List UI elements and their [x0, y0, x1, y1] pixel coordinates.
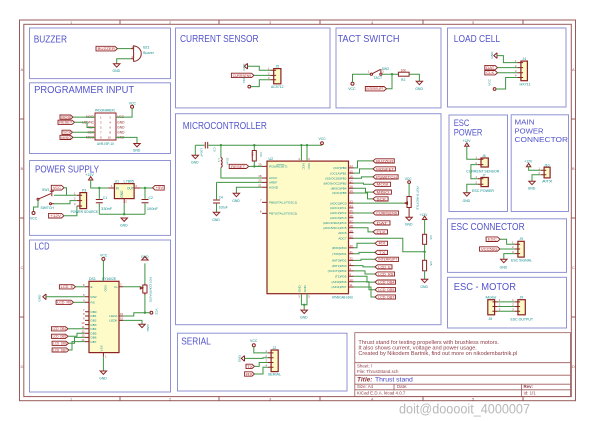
svg-text:MAIN: MAIN — [515, 118, 535, 127]
wire PC2 — [354, 212, 374, 214]
wire — [102, 261, 104, 282]
wire — [500, 248, 515, 250]
top VCC pins — [301, 145, 307, 161]
power VCC — [321, 142, 324, 145]
svg-text:U2: U2 — [269, 157, 274, 161]
wire — [529, 167, 541, 171]
inductor L1 — [220, 145, 222, 157]
svg-text:POT CONTRASTE: POT CONTRASTE — [149, 277, 153, 302]
svg-text:+12V: +12V — [85, 173, 94, 177]
svg-text:LCD_DB7: LCD_DB7 — [53, 348, 67, 352]
wire — [498, 72, 518, 74]
label RX — [375, 241, 388, 245]
label MISO — [60, 135, 73, 139]
svg-text:20: 20 — [258, 179, 262, 183]
svg-text:GND: GND — [120, 190, 124, 198]
svg-text:doit@dooooit_4000007: doit@dooooit_4000007 — [399, 402, 530, 417]
junction — [220, 144, 222, 146]
svg-text:(ICP)PB0: (ICP)PB0 — [333, 166, 346, 170]
connector J7 — [481, 178, 488, 187]
wire — [387, 74, 393, 89]
junction — [423, 251, 425, 253]
svg-text:MISO: MISO — [61, 136, 71, 140]
svg-text:32: 32 — [350, 257, 354, 261]
potentiometer CONTRASTE — [143, 285, 147, 293]
svg-text:J9: J9 — [520, 295, 524, 299]
svg-text:29: 29 — [258, 163, 262, 167]
label LCD_RS — [375, 272, 395, 276]
ESC POWER section — [463, 139, 500, 203]
svg-text:SW1: SW1 — [42, 188, 49, 192]
wire — [73, 131, 96, 133]
SERIAL section — [238, 339, 281, 376]
svg-text:RS: RS — [91, 301, 95, 305]
svg-text:CLK: CLK — [377, 230, 387, 234]
wire bottom rail — [99, 203, 145, 214]
svg-text:LCD_DB5: LCD_DB5 — [378, 288, 394, 292]
label BUZZER — [373, 159, 394, 163]
svg-text:GND: GND — [300, 316, 308, 320]
label LCD_DB4 — [52, 327, 69, 331]
right pin names — [323, 166, 347, 289]
wire PD7 — [354, 287, 376, 297]
svg-text:PROGRAMMER1: PROGRAMMER1 — [95, 109, 115, 113]
label +12V — [49, 213, 64, 218]
svg-text:ESC: ESC — [488, 238, 498, 242]
svg-text:LCD_DB4: LCD_DB4 — [53, 327, 67, 331]
ground left — [241, 356, 244, 362]
svg-text:E: E — [91, 285, 93, 289]
wires — [498, 302, 515, 311]
label RX — [245, 372, 255, 376]
svg-text:GND: GND — [191, 161, 199, 165]
svg-text:(OC1A)PB1: (OC1A)PB1 — [330, 171, 347, 175]
ground — [421, 279, 427, 282]
wire PD6 — [354, 282, 376, 290]
IC U2 ATMEGA8-16AU — [267, 161, 349, 294]
svg-text:HY1602E: HY1602E — [102, 277, 117, 281]
svg-text:LCD_E: LCD_E — [378, 265, 391, 269]
wire — [409, 74, 419, 81]
wire — [123, 286, 140, 288]
svg-text:R5: R5 — [429, 262, 433, 266]
label LCD_E — [375, 265, 392, 269]
label TX — [246, 364, 255, 368]
svg-text:R3: R3 — [259, 153, 263, 157]
ground — [121, 218, 127, 221]
svg-text:(RXD)PD0: (RXD)PD0 — [332, 246, 347, 250]
label LCD_RS — [56, 300, 73, 304]
svg-text:C2: C2 — [149, 196, 153, 200]
svg-text:LOAD CELL: LOAD CELL — [454, 34, 501, 45]
svg-text:J9: J9 — [519, 237, 523, 241]
svg-text:BUZZER: BUZZER — [34, 35, 67, 46]
svg-text:VCC: VCC — [53, 186, 62, 190]
svg-text:A: A — [21, 67, 24, 72]
label PSWITCH — [373, 175, 398, 179]
svg-text:10uH: 10uH — [226, 158, 230, 165]
svg-text:TX: TX — [247, 365, 253, 369]
junction — [253, 165, 255, 167]
power VCC right — [145, 312, 150, 314]
capacitor C2 — [144, 188, 146, 199]
svg-text:SERIAL: SERIAL — [268, 372, 281, 376]
svg-text:BZ1: BZ1 — [143, 45, 149, 49]
wire — [64, 188, 67, 196]
svg-text:GND: GND — [242, 63, 246, 71]
svg-text:VCC: VCC — [405, 177, 413, 181]
connector J4 HX711 — [521, 61, 528, 81]
wire — [68, 333, 85, 336]
power VCC — [248, 85, 251, 88]
svg-text:VCC: VCC — [307, 163, 311, 170]
ground — [501, 259, 507, 262]
svg-text:GND: GND — [146, 325, 150, 333]
svg-text:PSWITCH: PSWITCH — [376, 175, 397, 179]
svg-text:Sheet: /: Sheet: / — [357, 364, 373, 369]
svg-text:POWER SOURCE: POWER SOURCE — [71, 210, 99, 214]
svg-text:OUT: OUT — [127, 186, 134, 190]
svg-text:A: A — [572, 67, 575, 72]
svg-text:23: 23 — [350, 199, 354, 203]
wire — [116, 108, 132, 117]
svg-text:ATMEGA8-16AU: ATMEGA8-16AU — [332, 295, 353, 299]
wire — [69, 337, 86, 343]
wire — [144, 295, 146, 313]
wire — [497, 56, 518, 63]
label CURRSENS — [231, 73, 254, 77]
svg-text:ADC7: ADC7 — [338, 237, 347, 241]
capacitor C3 — [205, 142, 207, 149]
svg-text:GND: GND — [297, 285, 301, 293]
wire — [91, 180, 109, 188]
svg-text:DB7: DB7 — [91, 340, 97, 344]
ground — [406, 217, 412, 220]
BUZZER section — [96, 45, 155, 73]
svg-text:VCC5SG: VCC5SG — [481, 247, 498, 251]
svg-text:Id: 1/1: Id: 1/1 — [524, 391, 537, 396]
svg-text:BUZZER: BUZZER — [376, 159, 394, 163]
svg-text:26: 26 — [350, 214, 354, 218]
right pin stubs — [349, 168, 354, 287]
svg-text:10: 10 — [350, 278, 354, 282]
wire AREF — [217, 182, 263, 199]
svg-text:GND: GND — [238, 354, 242, 362]
svg-text:+5V: +5V — [156, 186, 164, 190]
svg-text:B: B — [572, 166, 575, 171]
wire PD3 — [354, 266, 376, 267]
svg-text:TACT: TACT — [374, 76, 383, 80]
svg-text:J5: J5 — [276, 64, 280, 68]
svg-text:GND: GND — [113, 69, 121, 73]
resistor R4 — [423, 234, 427, 244]
svg-text:GND: GND — [117, 120, 125, 124]
svg-text:D: D — [21, 364, 24, 369]
label DAT — [485, 65, 498, 69]
wire PC4 — [354, 222, 374, 224]
ground left — [43, 294, 46, 300]
label +5V — [153, 185, 165, 190]
wire — [73, 116, 95, 118]
svg-text:19: 19 — [350, 189, 354, 193]
svg-text:MICROCONTROLLER: MICROCONTROLLER — [183, 121, 267, 132]
label LCD_DB7 — [52, 348, 69, 352]
wire — [54, 201, 77, 204]
svg-text:Rev:: Rev: — [524, 384, 534, 389]
junction — [144, 187, 146, 189]
svg-text:Vo: Vo — [114, 285, 118, 289]
svg-text:C: C — [572, 265, 575, 270]
label CURRSENS — [373, 211, 398, 215]
svg-text:15: 15 — [350, 169, 354, 173]
svg-text:(INT0)PD2: (INT0)PD2 — [332, 259, 347, 263]
svg-text:POWER: POWER — [515, 126, 545, 135]
svg-text:CURRSENS: CURRSENS — [376, 211, 398, 215]
svg-text:INTERRUPT: INTERRUPT — [378, 258, 397, 262]
wire — [248, 66, 271, 70]
wire PB5 — [354, 193, 374, 199]
wire PC0 to pot — [354, 202, 406, 204]
svg-text:VCC: VCC — [242, 76, 246, 83]
connector J10 ATX — [544, 167, 550, 178]
wire — [255, 363, 269, 367]
label RESET — [58, 120, 75, 124]
ESC CONNECTOR section — [480, 237, 533, 270]
svg-text:POT THROTTLE: POT THROTTLE — [415, 187, 419, 210]
svg-text:ESC - MOTOR: ESC - MOTOR — [454, 282, 516, 293]
svg-text:D: D — [572, 364, 575, 369]
wire — [74, 301, 86, 303]
ground — [139, 324, 145, 327]
power VCC top — [102, 258, 105, 261]
wire — [500, 239, 515, 244]
wire — [251, 80, 271, 87]
svg-text:(AIN0)PD6: (AIN0)PD6 — [332, 280, 347, 284]
svg-text:Title:: Title: — [357, 377, 372, 384]
svg-text:LCD_DB7: LCD_DB7 — [378, 295, 394, 299]
wire PD5 — [354, 276, 376, 282]
svg-text:(AIN1)PD7: (AIN1)PD7 — [332, 285, 347, 289]
svg-text:GND: GND — [405, 223, 413, 227]
label VCC5SG — [480, 247, 501, 251]
label MOSI — [60, 115, 73, 119]
title block — [355, 333, 571, 397]
TACT SWITCH section — [348, 67, 423, 91]
connector J5 ACS712 — [274, 69, 281, 84]
junction — [303, 304, 305, 306]
PROGRAMMER INPUT section — [58, 102, 141, 153]
svg-text:LCD: LCD — [35, 242, 50, 253]
power VCC — [493, 88, 496, 91]
wire — [496, 78, 518, 90]
svg-text:GND: GND — [99, 377, 107, 381]
svg-text:TX: TX — [379, 251, 387, 255]
label LCD_DB4 — [375, 280, 396, 284]
wire — [76, 286, 86, 288]
svg-text:17: 17 — [350, 179, 354, 183]
svg-text:VDD: VDD — [104, 285, 108, 292]
svg-text:27: 27 — [350, 219, 354, 223]
wire — [64, 206, 77, 216]
svg-text:GND: GND — [463, 199, 471, 203]
svg-text:PC6(RESET): PC6(RESET) — [269, 165, 287, 169]
svg-text:RESET: RESET — [231, 165, 245, 169]
LOAD CELL section — [485, 51, 531, 91]
svg-text:GND: GND — [120, 224, 128, 228]
svg-text:RX: RX — [246, 372, 254, 376]
wire PB0 — [354, 161, 374, 168]
wire — [532, 175, 541, 182]
POWER SUPPLY section — [30, 173, 164, 228]
svg-text:(INT1)PD3: (INT1)PD3 — [332, 264, 347, 268]
svg-text:GND: GND — [38, 294, 42, 302]
wire PD4 — [354, 271, 376, 274]
svg-text:(TXD)PD1: (TXD)PD1 — [332, 252, 347, 256]
svg-text:AGND: AGND — [269, 185, 279, 189]
svg-text:14: 14 — [350, 164, 354, 168]
svg-text:GND: GND — [303, 285, 307, 293]
junction — [391, 73, 393, 75]
wire PB4 — [354, 188, 374, 192]
svg-text:VCC: VCC — [129, 102, 137, 106]
svg-text:POWER: POWER — [454, 127, 483, 137]
svg-text:File: ThrustStand.sch: File: ThrustStand.sch — [357, 369, 399, 374]
svg-text:30: 30 — [350, 244, 354, 248]
wire — [467, 146, 478, 159]
svg-text:KiCad E.D.A. kicad 4.0.7: KiCad E.D.A. kicad 4.0.7 — [357, 391, 406, 396]
svg-text:18: 18 — [258, 174, 262, 178]
wire — [471, 165, 478, 179]
wire — [245, 357, 269, 360]
wire — [73, 136, 95, 138]
section boxes — [30, 28, 569, 392]
wire PD2 — [354, 259, 376, 260]
svg-text:18: 18 — [350, 185, 354, 189]
svg-text:R/W: R/W — [91, 295, 97, 299]
label CLK — [485, 71, 498, 75]
ground — [529, 181, 535, 184]
switch SW2 TACT — [370, 73, 372, 75]
wire PB2 — [354, 177, 374, 178]
ground — [192, 155, 198, 158]
svg-text:HX711: HX711 — [520, 82, 531, 86]
svg-text:DB1: DB1 — [91, 314, 97, 318]
svg-text:ACS712: ACS712 — [271, 85, 284, 89]
svg-text:16: 16 — [120, 316, 124, 320]
svg-text:J7: J7 — [482, 173, 486, 177]
junction — [98, 187, 100, 189]
svg-text:Date:: Date: — [397, 384, 408, 389]
junction — [306, 144, 308, 146]
svg-text:(XCK/T0)PD4: (XCK/T0)PD4 — [328, 269, 347, 273]
wire — [54, 194, 77, 196]
svg-text:TACT SWITCH: TACT SWITCH — [338, 34, 400, 45]
svg-text:100uF: 100uF — [219, 205, 228, 209]
svg-text:AREF: AREF — [269, 181, 277, 185]
svg-text:Motor: Motor — [486, 295, 498, 299]
svg-text:MOSI: MOSI — [377, 183, 389, 187]
MICROCONTROLLER section — [191, 137, 433, 319]
svg-text:VCC: VCC — [30, 217, 38, 221]
wire — [116, 137, 137, 143]
svg-text:28: 28 — [350, 224, 354, 228]
svg-text:(MISO)PB4: (MISO)PB4 — [331, 187, 347, 191]
svg-text:GND: GND — [415, 87, 423, 91]
wire — [353, 74, 371, 82]
wire — [75, 122, 96, 127]
svg-text:GND: GND — [133, 149, 141, 153]
svg-text:J8: J8 — [489, 317, 493, 321]
svg-text:19: 19 — [350, 229, 354, 233]
svg-text:AVR-ISP-10: AVR-ISP-10 — [97, 142, 114, 146]
svg-text:22: 22 — [350, 235, 354, 239]
svg-text:330nF: 330nF — [101, 207, 112, 211]
svg-text:Created by Nikodem Bartnik, fi: Created by Nikodem Bartnik, find out mor… — [358, 351, 517, 357]
svg-text:VSS: VSS — [100, 345, 104, 351]
connector J3 POWER SOURCE — [80, 193, 87, 209]
svg-text:C: C — [21, 265, 24, 270]
svg-text:10k: 10k — [250, 152, 254, 157]
wire — [498, 67, 518, 69]
svg-text:SW2: SW2 — [382, 67, 389, 71]
MAIN POWER CONNECTOR section — [524, 160, 554, 191]
svg-text:GND: GND — [117, 130, 125, 134]
wire PD1 — [354, 252, 376, 253]
connector J8 Motor — [488, 300, 495, 315]
svg-text:25: 25 — [350, 209, 354, 213]
svg-text:(ADC0)PC0: (ADC0)PC0 — [330, 201, 347, 205]
connector J9 ESC SIGNAL — [518, 241, 524, 257]
top ticks — [120, 20, 523, 24]
label INTERRUPT — [375, 257, 399, 261]
ground — [213, 212, 219, 215]
ground — [100, 371, 106, 374]
resistor R5 — [423, 260, 427, 271]
junction — [123, 213, 125, 215]
svg-text:LEDK: LEDK — [109, 319, 118, 323]
svg-text:J4: J4 — [523, 57, 527, 61]
svg-text:(T1)PD5: (T1)PD5 — [335, 275, 347, 279]
svg-text:(ADC4/SDA)PC4: (ADC4/SDA)PC4 — [323, 221, 347, 225]
wire — [118, 48, 132, 50]
svg-text:BUZZER: BUZZER — [98, 47, 116, 51]
svg-text:DAT: DAT — [486, 66, 494, 70]
wire — [467, 184, 478, 193]
svg-text:VCC: VCC — [488, 78, 492, 85]
wire — [117, 59, 131, 64]
junction — [144, 312, 146, 314]
regulator U1 L7805 — [114, 184, 134, 199]
svg-text:ESC OUTPUT: ESC OUTPUT — [511, 318, 534, 322]
svg-text:VCC: VCC — [348, 87, 356, 91]
label DAT — [373, 221, 390, 225]
svg-text:LCD_E: LCD_E — [61, 285, 74, 289]
label TX — [375, 250, 388, 254]
capacitor C4 — [213, 200, 220, 203]
wire LEDA — [123, 313, 145, 316]
svg-text:RESET: RESET — [59, 121, 72, 125]
svg-text:MOSFET: MOSFET — [376, 167, 394, 171]
label MOSI — [373, 182, 391, 186]
label INTERRUPT — [365, 87, 386, 91]
ground — [416, 81, 422, 84]
wire PD0 — [354, 243, 376, 248]
label LCD_DB6 — [52, 341, 68, 345]
wire — [382, 73, 398, 75]
CURRENT SENSOR section — [231, 63, 283, 89]
wire top rail — [195, 145, 322, 155]
svg-text:(ADC2)PC2: (ADC2)PC2 — [330, 211, 347, 215]
